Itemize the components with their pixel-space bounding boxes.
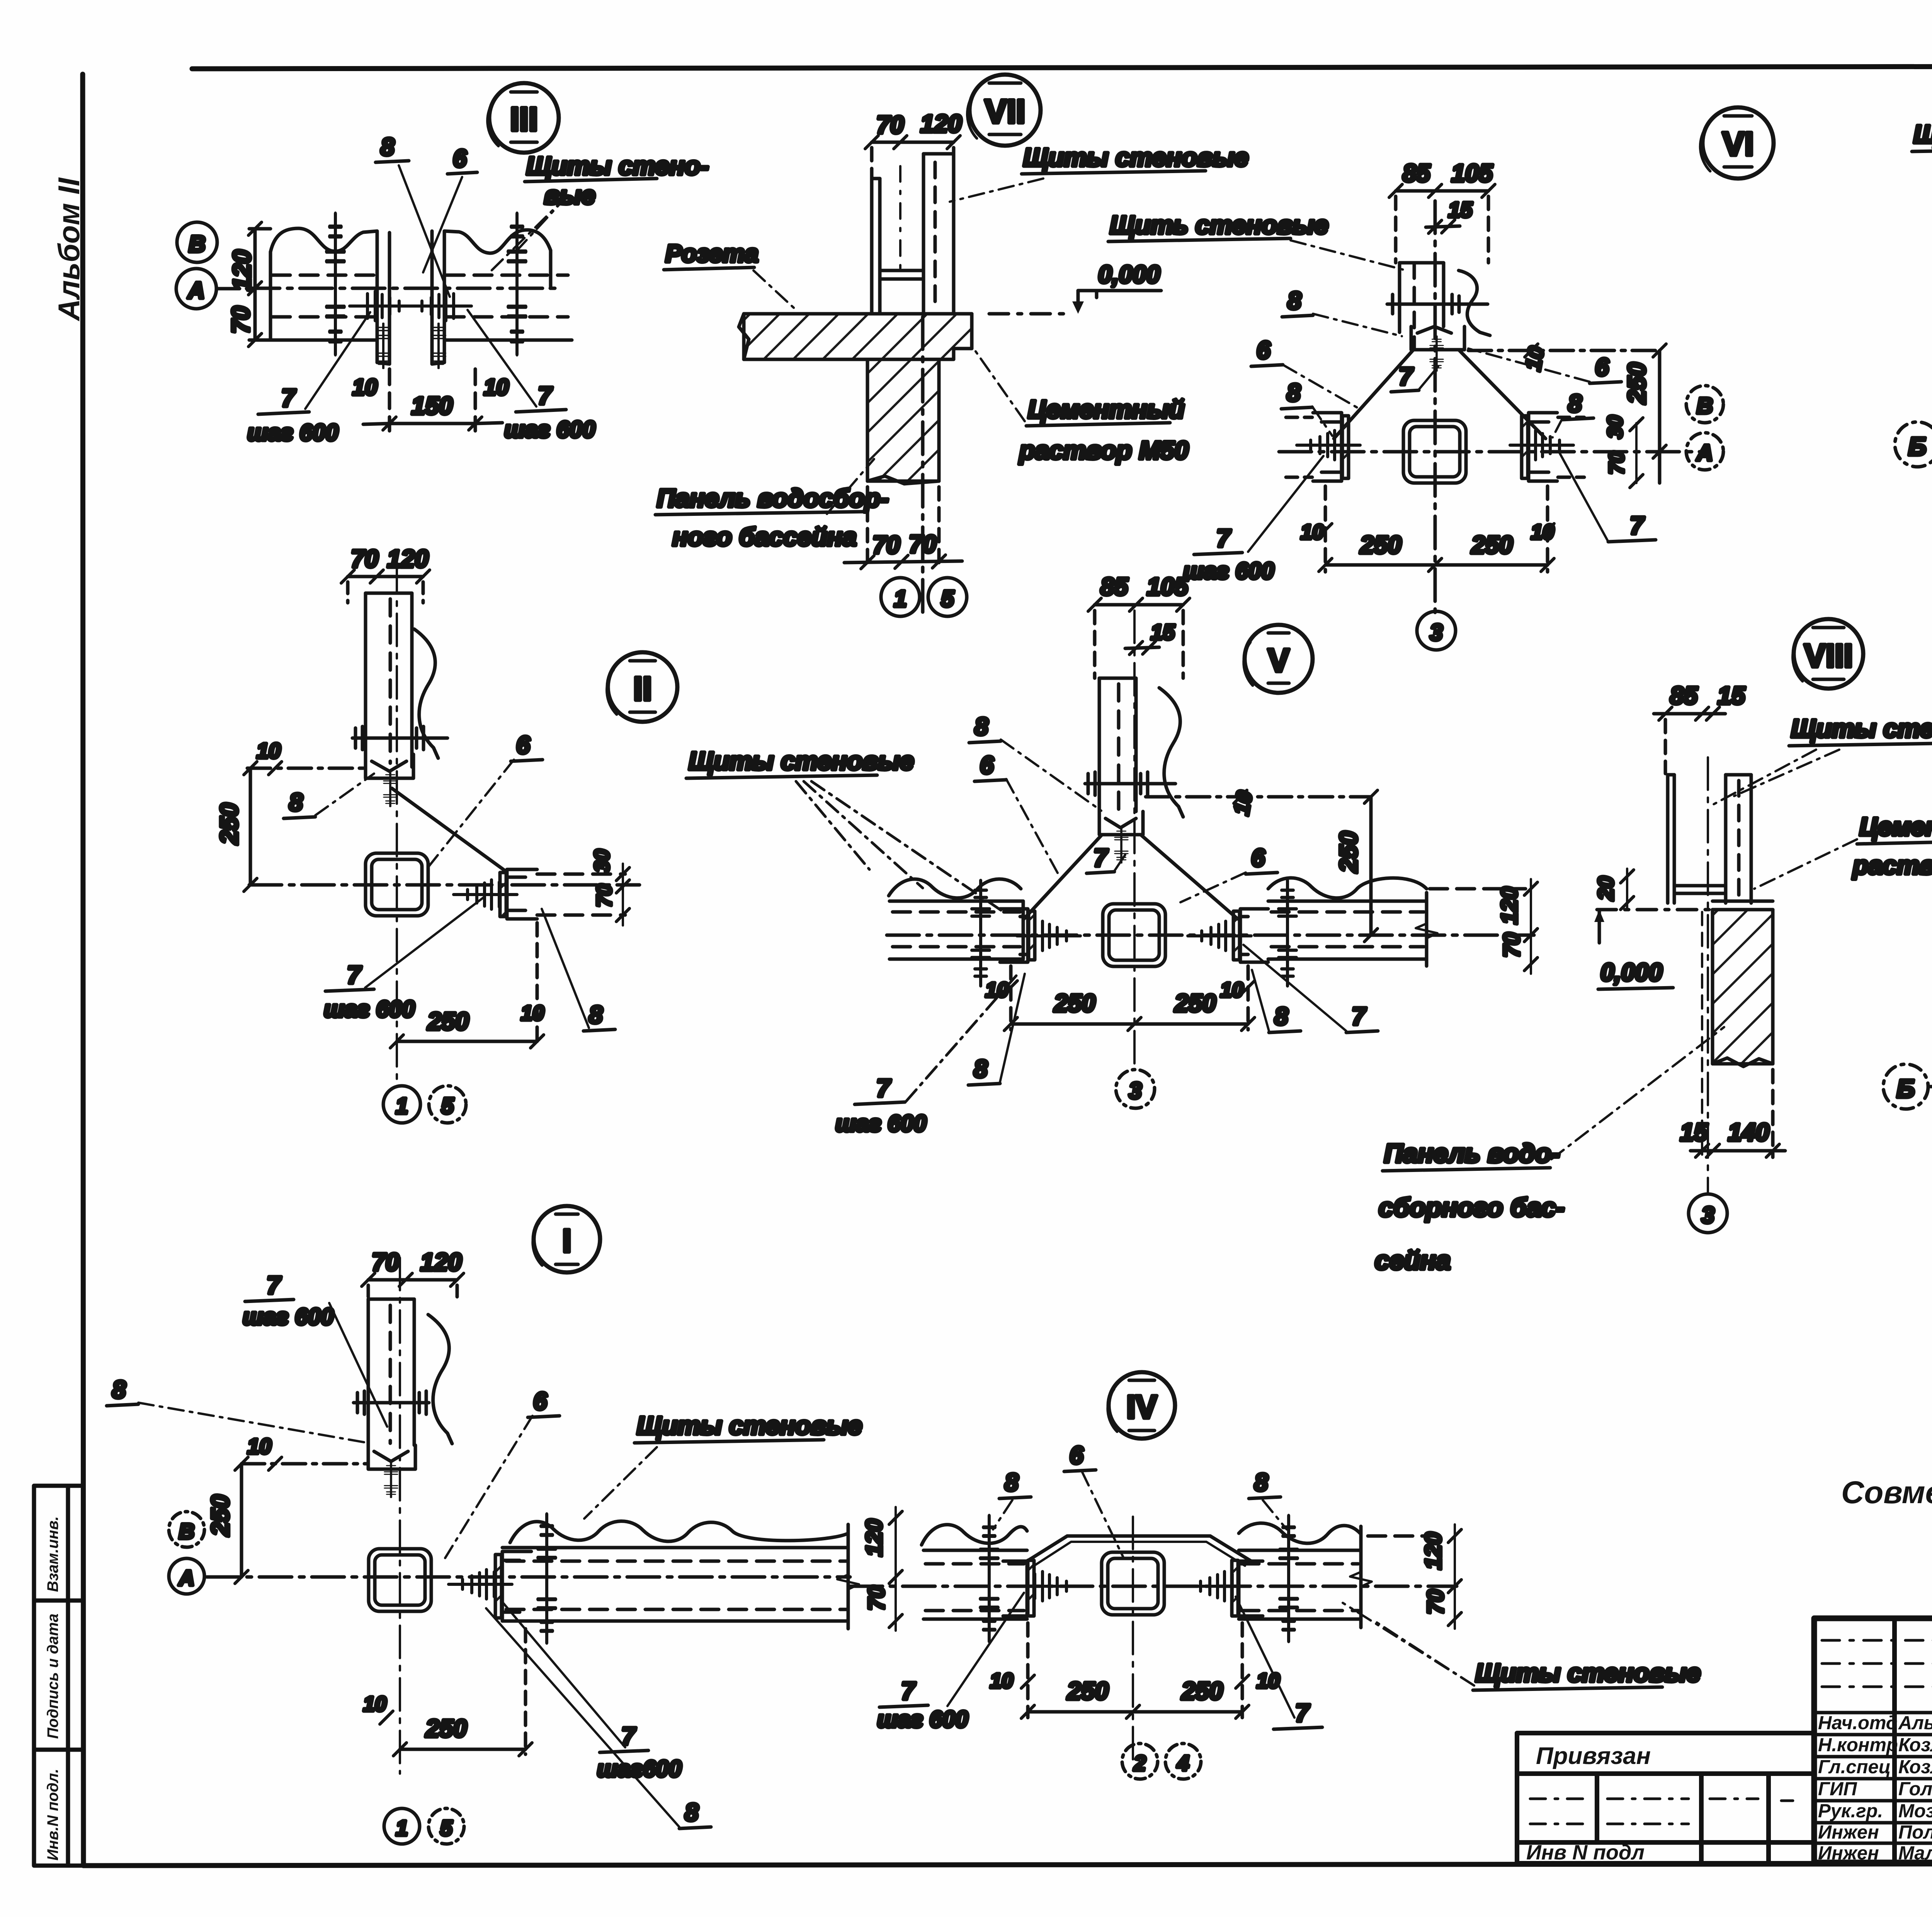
svg-text:Б: Б <box>1908 432 1927 461</box>
left panel <box>889 879 1021 898</box>
svg-text:70: 70 <box>372 1248 399 1276</box>
svg-text:120: 120 <box>920 110 962 138</box>
left vertical dimension 120/70 <box>253 229 257 340</box>
svg-text:Козловичер: Козловичер <box>1898 1757 1932 1778</box>
left bracket <box>1000 909 1028 962</box>
svg-text:6: 6 <box>1595 353 1609 381</box>
svg-text:15: 15 <box>1680 1118 1708 1146</box>
svg-text:Малахова: Малахова <box>1898 1843 1932 1864</box>
bracket <box>1099 811 1143 835</box>
svg-text:Н.контр: Н.контр <box>1818 1735 1898 1755</box>
svg-text:6: 6 <box>516 731 530 759</box>
svg-text:Козловичер: Козловичер <box>1898 1735 1932 1755</box>
bracket <box>368 1445 415 1469</box>
section circle III <box>489 83 559 153</box>
svg-text:120: 120 <box>1497 887 1522 924</box>
right bracket <box>502 1551 531 1621</box>
svg-text:VII: VII <box>985 93 1025 130</box>
diagonals <box>1024 835 1102 919</box>
svg-text:7: 7 <box>876 1074 891 1102</box>
svg-text:8: 8 <box>1287 379 1301 407</box>
side bracket <box>507 869 537 919</box>
svg-text:Щиты стеновые: Щиты стеновые <box>1913 120 1932 148</box>
svg-text:Панель водосбор-: Панель водосбор- <box>657 484 889 512</box>
vertical panel <box>367 1299 370 1445</box>
svg-text:120: 120 <box>862 1519 887 1556</box>
diagonals <box>1334 350 1413 439</box>
svg-text:7: 7 <box>1216 524 1231 552</box>
svg-text:250: 250 <box>1067 1677 1109 1705</box>
svg-text:6: 6 <box>1251 844 1265 872</box>
250 dim <box>240 1464 243 1577</box>
svg-text:Инв N подл: Инв N подл <box>1526 1841 1645 1864</box>
svg-text:Инв.N подл.: Инв.N подл. <box>44 1769 61 1861</box>
svg-text:6: 6 <box>980 751 994 779</box>
svg-text:Подпись и дата: Подпись и дата <box>44 1614 61 1739</box>
svg-text:250: 250 <box>425 1715 467 1742</box>
right dims <box>1468 349 1662 352</box>
svg-text:250: 250 <box>1623 362 1651 404</box>
svg-text:шаг 600: шаг 600 <box>835 1111 927 1136</box>
svg-text:Панель водо-: Панель водо- <box>1384 1139 1560 1168</box>
right bracket <box>1529 413 1557 481</box>
privyazan table <box>1517 1733 1814 1863</box>
svg-text:Гл.спец: Гл.спец <box>1818 1757 1891 1778</box>
svg-text:4: 4 <box>1177 1751 1189 1775</box>
svg-text:8: 8 <box>381 133 395 161</box>
album label vertical <box>52 177 86 321</box>
svg-text:Щиты стеновые: Щиты стеновые <box>689 747 914 775</box>
note text <box>1841 1475 1932 1510</box>
svg-text:раствор М50: раствор М50 <box>1019 436 1189 464</box>
svg-text:85: 85 <box>1403 159 1431 187</box>
svg-text:А: А <box>187 277 204 303</box>
svg-text:Цементный: Цементный <box>1028 395 1184 424</box>
svg-text:VI: VI <box>1722 126 1753 163</box>
level mark <box>1597 908 1711 912</box>
svg-text:II: II <box>633 670 652 708</box>
top dims 70 120 <box>872 141 954 144</box>
svg-text:А: А <box>178 1566 194 1590</box>
10 dim <box>241 1462 368 1466</box>
top dims <box>1095 603 1183 607</box>
svg-text:В: В <box>1697 393 1713 418</box>
10 dim <box>247 767 366 770</box>
svg-text:Щить стеновые: Щить стеновые <box>1110 211 1328 239</box>
title block texts <box>1818 1713 1932 1864</box>
horizontal axis <box>247 287 560 290</box>
axes <box>207 1575 850 1579</box>
svg-text:70: 70 <box>1605 451 1628 475</box>
svg-text:8: 8 <box>1254 1468 1268 1496</box>
svg-text:8: 8 <box>589 1001 603 1029</box>
left bracket <box>1003 1561 1027 1616</box>
left name table verticals <box>1892 1618 1897 1863</box>
axis and circles <box>921 317 925 614</box>
svg-text:7: 7 <box>1094 844 1109 872</box>
svg-text:7: 7 <box>347 961 362 989</box>
svg-text:6: 6 <box>533 1387 547 1415</box>
bottom axis circle <box>1417 611 1456 650</box>
square tube <box>1403 420 1466 483</box>
svg-text:V: V <box>1268 642 1289 679</box>
left bracket <box>1313 413 1342 481</box>
svg-text:ного бассейна: ного бассейна <box>672 522 857 551</box>
svg-text:6: 6 <box>1070 1441 1083 1469</box>
svg-text:В: В <box>189 231 205 257</box>
svg-text:Полякова: Полякова <box>1898 1822 1932 1843</box>
right panel <box>510 1521 848 1543</box>
svg-text:Б: Б <box>1897 1074 1915 1103</box>
svg-text:7: 7 <box>1352 1002 1367 1030</box>
panel members <box>1666 775 1670 903</box>
tube <box>1102 1552 1164 1615</box>
axis circles <box>169 1512 204 1547</box>
axis circles bottom <box>384 1808 420 1844</box>
svg-text:0,000: 0,000 <box>1098 260 1160 288</box>
svg-text:70: 70 <box>351 545 378 573</box>
svg-text:шаг 600: шаг 600 <box>243 1304 334 1330</box>
svg-text:8: 8 <box>685 1798 699 1826</box>
svg-text:7: 7 <box>901 1677 916 1705</box>
axes <box>850 1585 1457 1588</box>
svg-text:10: 10 <box>521 1002 544 1025</box>
title block <box>1814 1618 1932 1863</box>
svg-text:5: 5 <box>441 1094 454 1119</box>
svg-text:Альтшуллер: Альтшуллер <box>1898 1713 1932 1733</box>
svg-text:250: 250 <box>215 803 243 845</box>
vertical axis <box>1434 201 1437 612</box>
axis circle 3 <box>1116 1070 1155 1108</box>
svg-text:8: 8 <box>975 713 988 740</box>
svg-text:7: 7 <box>1399 362 1414 390</box>
right bracket <box>1239 1561 1263 1616</box>
svg-text:вые: вые <box>544 181 595 209</box>
svg-text:1: 1 <box>396 1094 408 1119</box>
250 dim <box>249 768 252 885</box>
svg-text:ГИП: ГИП <box>1818 1779 1857 1800</box>
top dims 85 105 <box>1396 189 1488 193</box>
svg-text:7: 7 <box>1630 512 1645 539</box>
svg-text:VIII: VIII <box>1804 638 1853 674</box>
concrete wall <box>1713 910 1773 1064</box>
svg-text:140: 140 <box>1728 1118 1769 1146</box>
top dims <box>348 575 423 578</box>
svg-text:70: 70 <box>593 884 616 907</box>
svg-text:8: 8 <box>1274 1002 1288 1030</box>
svg-text:8: 8 <box>1568 390 1582 417</box>
svg-text:Мозо: Мозо <box>1898 1801 1932 1822</box>
svg-text:В: В <box>179 1519 194 1543</box>
diagonal <box>392 788 505 871</box>
svg-text:5: 5 <box>440 1816 452 1840</box>
bottom dims <box>388 369 391 431</box>
dashed empty rows top <box>1822 1640 1932 1687</box>
svg-text:Рук.гр.: Рук.гр. <box>1818 1801 1883 1822</box>
svg-text:III: III <box>510 101 538 138</box>
svg-text:8: 8 <box>1287 287 1301 315</box>
svg-text:105: 105 <box>1147 573 1189 600</box>
svg-text:120: 120 <box>420 1248 462 1276</box>
svg-text:шаг 600: шаг 600 <box>247 420 338 446</box>
svg-text:3: 3 <box>1129 1078 1141 1104</box>
120 70 dims right <box>1530 879 1532 974</box>
right bracket <box>1240 909 1268 962</box>
axis <box>1707 757 1709 1192</box>
svg-text:шаг 600: шаг 600 <box>1183 558 1274 584</box>
svg-text:10: 10 <box>1229 789 1257 817</box>
top dims <box>368 1278 457 1282</box>
svg-text:8: 8 <box>112 1376 126 1403</box>
svg-text:7: 7 <box>538 382 553 410</box>
top dims 85 15 <box>1654 712 1725 716</box>
svg-text:шаг 600: шаг 600 <box>504 417 595 442</box>
axis circles <box>1686 386 1723 423</box>
svg-text:15: 15 <box>1448 197 1473 222</box>
svg-text:7: 7 <box>281 384 296 412</box>
svg-text:Нач.отд: Нач.отд <box>1818 1713 1898 1733</box>
svg-text:7: 7 <box>267 1271 282 1299</box>
wall panel members <box>870 179 874 313</box>
svg-text:шаг 600: шаг 600 <box>877 1706 968 1732</box>
tube <box>1103 904 1165 966</box>
svg-text:6: 6 <box>1257 336 1270 364</box>
10 dim and 250 right <box>1146 795 1371 799</box>
axes <box>887 934 1534 937</box>
svg-text:85: 85 <box>1100 573 1129 600</box>
svg-text:1: 1 <box>894 586 906 612</box>
axes <box>249 883 639 887</box>
30/70 dims <box>622 864 624 925</box>
svg-text:250: 250 <box>1181 1677 1223 1705</box>
axis circles <box>383 1086 420 1123</box>
right panel <box>1239 1523 1360 1543</box>
left margin table <box>34 1486 83 1866</box>
svg-text:70: 70 <box>227 306 255 333</box>
svg-text:20: 20 <box>1594 876 1618 901</box>
axis circles <box>1122 1744 1158 1779</box>
svg-text:250: 250 <box>1174 989 1216 1017</box>
joint channels <box>376 231 379 362</box>
svg-text:6: 6 <box>453 145 467 172</box>
svg-text:2: 2 <box>1133 1751 1146 1775</box>
svg-text:Совместно с данным см. лист АС: Совместно с данным см. лист АС 12 <box>1841 1475 1932 1510</box>
svg-text:Альбом II: Альбом II <box>52 177 86 321</box>
svg-text:Инжен: Инжен <box>1818 1822 1879 1843</box>
right wall panel (plan) <box>444 230 551 253</box>
top panel assembly <box>1398 263 1401 332</box>
svg-text:120: 120 <box>1421 1532 1446 1570</box>
120 70 dims <box>895 1507 897 1631</box>
svg-text:8: 8 <box>1005 1468 1019 1496</box>
svg-text:250: 250 <box>1054 989 1095 1017</box>
svg-text:5: 5 <box>941 586 954 612</box>
svg-text:Привязан: Привязан <box>1536 1743 1651 1769</box>
svg-text:10: 10 <box>257 738 281 763</box>
left panel <box>922 1525 1027 1545</box>
right panel dashes <box>537 873 625 876</box>
svg-text:105: 105 <box>1451 159 1493 187</box>
Б axis <box>1895 422 1932 467</box>
250 bottom <box>397 1040 537 1043</box>
svg-text:Цементный: Цементный <box>1859 812 1932 841</box>
svg-text:8: 8 <box>974 1055 988 1083</box>
svg-text:шаг 600: шаг 600 <box>324 996 415 1022</box>
bottom dims <box>1701 912 1703 1157</box>
svg-text:120: 120 <box>387 545 429 573</box>
left wall panel (plan) <box>270 228 377 252</box>
svg-text:30: 30 <box>1604 415 1627 439</box>
svg-text:10: 10 <box>1220 978 1243 1002</box>
svg-text:Щиты стено-: Щиты стено- <box>526 151 709 180</box>
svg-text:10: 10 <box>1520 345 1549 373</box>
10 dim right <box>536 923 539 1043</box>
120 70 dims <box>1454 1524 1456 1629</box>
svg-text:3: 3 <box>1701 1202 1714 1228</box>
svg-text:70: 70 <box>864 1585 889 1611</box>
svg-text:10: 10 <box>990 1669 1013 1692</box>
svg-text:Щиты стеновые: Щиты стеновые <box>1023 143 1248 172</box>
axis circles B and A <box>177 222 217 262</box>
svg-text:10: 10 <box>247 1434 271 1458</box>
svg-text:раствор М50: раствор М50 <box>1852 851 1932 879</box>
svg-text:сейна: сейна <box>1375 1246 1451 1275</box>
bottom dims <box>1026 1623 1030 1718</box>
svg-text:85: 85 <box>1670 682 1698 709</box>
svg-text:120: 120 <box>228 250 256 291</box>
svg-text:250: 250 <box>427 1007 469 1035</box>
svg-text:Щиты стеновые: Щиты стеновые <box>1791 714 1932 743</box>
svg-text:30: 30 <box>590 849 614 873</box>
horizontal axis <box>1279 450 1708 454</box>
svg-text:IV: IV <box>1126 1389 1157 1425</box>
svg-text:3: 3 <box>1430 619 1442 645</box>
trapezoid joint panel <box>1027 1536 1251 1561</box>
svg-text:10: 10 <box>352 375 378 400</box>
vertical panel <box>364 593 367 767</box>
bottom dims <box>1324 486 1327 572</box>
svg-text:70: 70 <box>1423 1589 1448 1614</box>
20 dim <box>1626 869 1628 910</box>
svg-text:250: 250 <box>206 1495 234 1536</box>
vertical panel <box>1098 678 1101 811</box>
svg-text:10: 10 <box>484 375 509 400</box>
B axis <box>1883 1064 1928 1109</box>
svg-text:1: 1 <box>396 1816 408 1840</box>
right panel <box>1268 878 1427 898</box>
svg-text:70: 70 <box>876 111 904 139</box>
svg-text:I: I <box>562 1223 571 1259</box>
svg-text:0,000: 0,000 <box>1600 958 1662 986</box>
svg-text:7: 7 <box>1295 1699 1310 1727</box>
svg-text:шаг600: шаг600 <box>597 1756 682 1782</box>
svg-text:10: 10 <box>1531 520 1554 544</box>
svg-text:70: 70 <box>872 531 900 559</box>
svg-text:250: 250 <box>1335 831 1362 873</box>
name rows <box>1814 1711 1932 1715</box>
bracket <box>366 754 413 778</box>
svg-text:Щиты стеновые: Щиты стеновые <box>637 1411 862 1440</box>
bottom dims <box>866 487 869 568</box>
svg-text:10: 10 <box>363 1692 386 1716</box>
svg-text:15: 15 <box>1718 682 1746 709</box>
svg-text:Гольдина: Гольдина <box>1898 1779 1932 1800</box>
svg-text:Инжен: Инжен <box>1818 1843 1879 1864</box>
svg-text:Щиты стеновые: Щиты стеновые <box>1475 1658 1701 1687</box>
svg-text:150: 150 <box>412 392 453 420</box>
slab hatched <box>744 314 972 359</box>
svg-text:250: 250 <box>1471 531 1513 559</box>
wall below hatched <box>867 359 939 481</box>
svg-text:250: 250 <box>1360 531 1401 559</box>
svg-text:А: А <box>1696 441 1713 466</box>
svg-text:10: 10 <box>1301 520 1324 544</box>
svg-text:сборного бас-: сборного бас- <box>1379 1193 1565 1222</box>
svg-text:Розета: Розета <box>665 240 759 267</box>
bottom dims <box>524 1629 527 1754</box>
bottom dims <box>1009 966 1013 1030</box>
svg-text:8: 8 <box>289 788 303 816</box>
svg-text:Взам.инв.: Взам.инв. <box>44 1516 61 1592</box>
